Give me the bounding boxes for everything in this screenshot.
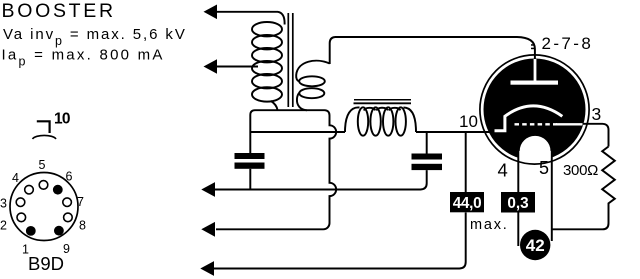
svg-text:B9D: B9D	[28, 253, 64, 274]
RF choke core line 2	[354, 102, 412, 104]
svg-text:6: 6	[66, 170, 73, 184]
svg-text:42: 42	[526, 236, 545, 255]
svg-text:44,0: 44,0	[453, 195, 482, 212]
svg-text:5: 5	[539, 158, 549, 178]
svg-text:0,3: 0,3	[507, 195, 528, 212]
svg-text:10: 10	[54, 111, 70, 128]
capacitor C2 bottom lead	[421, 170, 427, 189]
transformer primary winding loop 4	[252, 61, 282, 75]
heater lead pin 5	[551, 147, 553, 241]
box 44,0	[450, 192, 484, 212]
transformer secondary winding loop 1	[299, 76, 325, 86]
node circle 42	[520, 230, 550, 260]
tube grid (white dashed)	[515, 123, 558, 125]
svg-text:9: 9	[63, 242, 70, 256]
tube grid (white solid to disc edge)	[556, 123, 583, 125]
capacitor C1 plate 2	[235, 163, 265, 169]
main node wire y=132 (pin 10 node)	[250, 131, 345, 133]
svg-text:2-7-8: 2-7-8	[542, 34, 594, 53]
label tick 2 on anode lead	[531, 48, 534, 50]
transformer core line 2	[292, 13, 294, 107]
svg-text:BOOSTER: BOOSTER	[2, 0, 116, 22]
box 0,3	[501, 192, 535, 213]
transformer secondary winding bottom turn	[297, 93, 307, 111]
wire under coil to tube pin 10	[416, 131, 495, 133]
tube envelope: black interior disc	[484, 59, 586, 161]
bus Y1: winding bottoms (y=110)	[250, 110, 329, 115]
transformer primary winding loop 6	[252, 87, 282, 101]
arrow A3	[201, 182, 215, 197]
wire top bus to anode (y=37)	[335, 37, 535, 61]
tube anode lead (white, inside disc)	[534, 59, 537, 82]
heater lead pin 4	[517, 149, 519, 247]
grid lead to pin 3	[583, 124, 609, 147]
svg-text:7: 7	[77, 195, 84, 209]
vertical wire x=329.5 with hops, down to arrow A4	[216, 116, 336, 230]
transformer secondary winding loop 2	[299, 88, 324, 98]
svg-text:Iap = max. 800 mA: Iap = max. 800 mA	[2, 47, 165, 69]
base pin 1 (filled)	[26, 226, 36, 236]
tube cathode (white arc with foot to pin 10)	[495, 106, 563, 131]
svg-text:2: 2	[0, 219, 7, 233]
transformer core line 1	[287, 13, 289, 107]
transformer secondary winding top turn	[296, 61, 330, 82]
svg-text:300Ω: 300Ω	[563, 162, 598, 179]
transformer primary winding loop 3	[252, 48, 282, 62]
wire A3 (cap bottoms)	[214, 189, 421, 191]
base pin 2 (open)	[17, 213, 26, 222]
base pin 3 (open)	[16, 198, 25, 207]
tube anode plate (white bar)	[511, 81, 559, 85]
base pin 4 (open)	[25, 185, 34, 194]
base pin 6 (filled)	[53, 185, 63, 195]
wire A1	[216, 12, 285, 25]
svg-text:10: 10	[459, 112, 478, 131]
svg-text:4: 4	[12, 171, 19, 185]
label tick 1 on anode lead	[531, 44, 534, 46]
capacitor C2 top lead	[426, 132, 428, 154]
arrow A5	[200, 261, 214, 276]
RF choke core line 1	[354, 99, 411, 101]
transformer primary winding loop 2	[252, 35, 282, 49]
arrow A4	[201, 222, 215, 237]
svg-text:4: 4	[498, 159, 508, 180]
tube heater loop arc	[519, 135, 551, 151]
arrow A2 (transformer primary tap)	[204, 59, 218, 74]
capacitor C1 top lead	[249, 115, 251, 153]
wire A2	[216, 66, 258, 68]
svg-text:8: 8	[79, 219, 86, 233]
resistor 300 ohm zigzag	[552, 147, 615, 230]
tube heater loop (white fill opening downward)	[519, 135, 551, 166]
svg-text:3: 3	[592, 104, 602, 124]
svg-text:3: 3	[0, 197, 7, 211]
base pin 7 (open)	[63, 198, 72, 207]
base pin 9 (filled)	[54, 226, 64, 236]
svg-text:max.: max.	[470, 217, 509, 233]
wire 440-branch above box	[465, 132, 467, 192]
tube base B9D outline circle	[10, 173, 78, 241]
transformer primary winding loop 1	[252, 22, 282, 36]
base pin 5 (open)	[39, 181, 48, 190]
RF choke winding	[345, 107, 416, 135]
wire A5 bottom bus	[214, 213, 466, 269]
capacitor C1 bottom lead	[249, 169, 251, 190]
top-cap symbol (pin 10 cap)	[33, 121, 57, 139]
capacitor C2 plate 2	[412, 164, 443, 170]
capacitor C1 plate 1	[235, 153, 265, 159]
svg-text:5: 5	[39, 158, 46, 172]
arrow A1 (to transformer primary top)	[204, 5, 218, 20]
svg-text:Va invp = max. 5,6 kV: Va invp = max. 5,6 kV	[3, 26, 187, 48]
capacitor C2 plate 1	[412, 154, 443, 160]
base pin 8 (open)	[64, 213, 73, 222]
tube envelope outline circle	[480, 55, 589, 164]
transformer primary bottom lead	[271, 101, 278, 110]
wire pin10 into tube	[466, 131, 495, 133]
transformer primary winding loop 5	[252, 74, 282, 88]
transformer secondary top lead	[330, 37, 335, 64]
